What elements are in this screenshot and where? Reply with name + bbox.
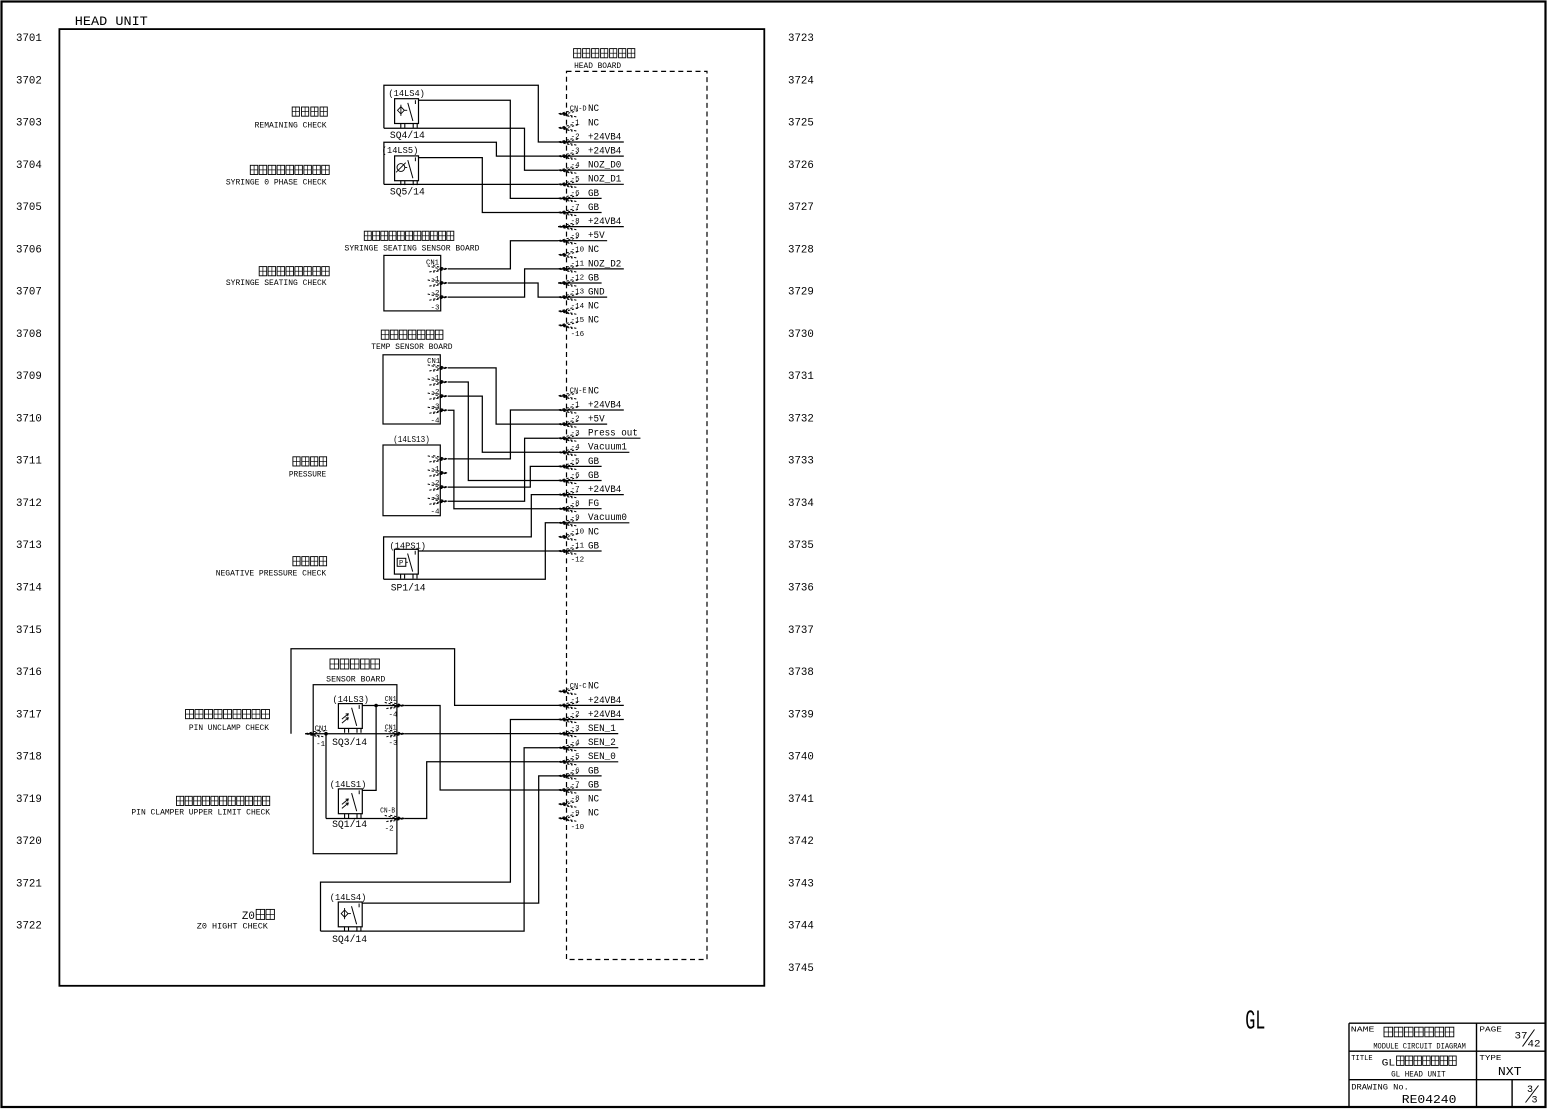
- svg-text:SQ1/14: SQ1/14: [332, 819, 367, 831]
- caption remaining check: [292, 107, 299, 116]
- svg-text:3713: 3713: [16, 540, 42, 552]
- svg-text:-6: -6: [571, 472, 581, 480]
- wire SP1 supply loop to CN-E-7 +24VB4: [384, 495, 558, 580]
- svg-text:-1: -1: [571, 120, 581, 128]
- svg-text:3723: 3723: [788, 33, 814, 45]
- svg-text:SP1/14: SP1/14: [391, 582, 426, 594]
- svg-text:-3: -3: [571, 725, 581, 733]
- wire Z0 supply loop to CN-C-2 +24VB4: [321, 720, 559, 932]
- svg-text:REMAINING CHECK: REMAINING CHECK: [255, 121, 327, 130]
- svg-text:MODULE CIRCUIT DIAGRAM: MODULE CIRCUIT DIAGRAM: [1373, 1042, 1466, 1051]
- svg-text:3728: 3728: [788, 244, 814, 256]
- svg-text:CN-E: CN-E: [570, 388, 587, 396]
- svg-text:SQ4/14: SQ4/14: [332, 934, 367, 946]
- wire SQ3 output rail to CN1-4: [362, 705, 404, 707]
- svg-text:-16: -16: [571, 331, 585, 339]
- svg-text:-11: -11: [571, 261, 585, 269]
- svg-text:NC: NC: [588, 682, 599, 693]
- svg-text:GL: GL: [1245, 1008, 1265, 1038]
- svg-text:PIN UNCLAMP CHECK: PIN UNCLAMP CHECK: [189, 724, 269, 733]
- svg-text:3743: 3743: [788, 878, 814, 890]
- switch SQ5/14 box: [395, 156, 419, 185]
- photo switch SQ1/14 box: [338, 789, 362, 818]
- svg-text:CN-C: CN-C: [570, 683, 587, 691]
- svg-text:-9: -9: [571, 810, 580, 818]
- wire Z0 bottom to CN-C-4 SEN_2: [321, 748, 559, 931]
- svg-text:-14: -14: [571, 303, 585, 311]
- wire drop to SQ1 output: [362, 706, 376, 791]
- svg-text:37: 37: [1515, 1031, 1528, 1042]
- svg-text:-10: -10: [571, 824, 585, 832]
- svg-text:3729: 3729: [788, 287, 814, 299]
- svg-text:3715: 3715: [16, 625, 42, 637]
- svg-text:3722: 3722: [16, 921, 42, 933]
- wire SP1 output to CN-E-11 GB: [418, 550, 558, 552]
- board pins CN1 1-4: [428, 365, 448, 372]
- switch SQ4/14 (Z0) box: [338, 902, 362, 931]
- svg-text:3734: 3734: [788, 498, 814, 510]
- svg-text:(14PS1): (14PS1): [390, 541, 427, 551]
- wire SP1 bottom to CN-E-9 Vacuum0: [384, 523, 558, 580]
- svg-text:3744: 3744: [788, 921, 814, 933]
- wire seating CN1-3 to CN-D-11 NOZ_D2: [448, 269, 558, 297]
- svg-text:3706: 3706: [16, 244, 42, 256]
- temp sensor board box: [383, 355, 440, 424]
- board connector CN1 pin -1 (left): [305, 730, 325, 737]
- svg-text:42: 42: [1528, 1040, 1541, 1051]
- connector CN-E: [558, 393, 578, 400]
- svg-text:-8: -8: [571, 796, 580, 804]
- title block table: [1349, 1022, 1546, 1024]
- HEAD BOARD dashed outline: [567, 71, 708, 959]
- svg-text:3717: 3717: [16, 709, 42, 721]
- wire SQ4 output to CN-D-6: [419, 100, 559, 198]
- connector CN-D: [558, 111, 578, 118]
- svg-text:-3: -3: [430, 304, 440, 312]
- wire SQ5 supply loop to CN-D-3: [384, 142, 558, 184]
- svg-text:3712: 3712: [16, 498, 42, 510]
- svg-text:3742: 3742: [788, 836, 814, 848]
- connector CN-C: [558, 688, 578, 695]
- svg-text:-5: -5: [571, 753, 581, 761]
- svg-text:SYRINGE SEATING SENSOR BOARD: SYRINGE SEATING SENSOR BOARD: [345, 245, 480, 254]
- svg-text:CN1: CN1: [385, 696, 397, 704]
- svg-text:3710: 3710: [16, 413, 42, 425]
- svg-text:-10: -10: [571, 246, 585, 254]
- wire seating CN1-1 to CN-E? no: to CN-D-9 +5V: [448, 241, 558, 269]
- caption pressure: [293, 457, 300, 466]
- svg-text:NEGATIVE PRESSURE CHECK: NEGATIVE PRESSURE CHECK: [216, 569, 327, 578]
- svg-text:3703: 3703: [16, 118, 42, 130]
- svg-text:GL: GL: [1382, 1058, 1396, 1069]
- wire internal rail under SQ3: [305, 733, 405, 735]
- svg-text:3701: 3701: [16, 33, 42, 45]
- svg-text:RE04240: RE04240: [1402, 1093, 1457, 1107]
- svg-text:NAME: NAME: [1351, 1026, 1375, 1034]
- board pins right: CN1 -4: [385, 702, 405, 709]
- svg-text:-12: -12: [571, 557, 585, 565]
- pressure switch SP1/14 box: [394, 549, 418, 578]
- svg-text:(14LS13): (14LS13): [393, 435, 430, 445]
- svg-text:SYRINGE 0 PHASE CHECK: SYRINGE 0 PHASE CHECK: [226, 178, 327, 187]
- head unit enclosure box: [59, 29, 764, 986]
- svg-text:3726: 3726: [788, 160, 814, 172]
- svg-text:NC: NC: [588, 795, 599, 806]
- wire pressure pin4 to CN-E-3 Press out: [448, 438, 558, 501]
- svg-text:3725: 3725: [788, 118, 814, 130]
- svg-text:-4: -4: [389, 712, 399, 720]
- wire temp CN1-2 to CN-E-6 GB: [448, 382, 558, 481]
- wire temp CN1-4 to CN-E-8 FG: [448, 410, 558, 509]
- svg-text:(14LS1): (14LS1): [330, 780, 367, 790]
- svg-text:3720: 3720: [16, 836, 42, 848]
- svg-text:-13: -13: [571, 289, 585, 297]
- svg-text:DRAWING No.: DRAWING No.: [1351, 1083, 1409, 1092]
- wire rail under SQ1 to CN-B-2: [326, 818, 405, 820]
- svg-text:3740: 3740: [788, 752, 814, 764]
- svg-text:3733: 3733: [788, 456, 814, 468]
- svg-text:3719: 3719: [16, 794, 42, 806]
- wire SQ5 bottom to CN-D-5: [384, 183, 558, 185]
- svg-text:3711: 3711: [16, 456, 42, 468]
- svg-text:3731: 3731: [788, 371, 814, 383]
- svg-text:-1: -1: [571, 402, 581, 410]
- svg-text:SQ3/14: SQ3/14: [332, 737, 367, 749]
- svg-text:-6: -6: [571, 768, 581, 776]
- wire CN1-4 to CN-C-7 GB: [405, 706, 558, 791]
- wire temp CN1-3 to CN-E-4 Vacuum1: [448, 396, 558, 452]
- svg-text:-15: -15: [571, 317, 585, 325]
- caption negative pressure check: [293, 557, 300, 566]
- pressure board 14LS13 box: [383, 445, 440, 516]
- wire seating CN1-2 to CN-D-13 GND: [448, 283, 558, 297]
- svg-text:3730: 3730: [788, 329, 814, 341]
- caption temp sensor board: [381, 330, 389, 339]
- svg-text:-2: -2: [571, 416, 580, 424]
- svg-text:SQ4/14: SQ4/14: [390, 130, 425, 142]
- svg-text:3745: 3745: [788, 963, 814, 975]
- supply loop wire to CN-C-1 +24VB4: [291, 649, 558, 734]
- svg-text:(14LS5): (14LS5): [382, 146, 419, 156]
- svg-text:PRESSURE: PRESSURE: [289, 470, 326, 479]
- svg-text:HEAD BOARD: HEAD BOARD: [574, 62, 621, 71]
- svg-text:NC: NC: [588, 809, 599, 820]
- svg-text:-4: -4: [571, 444, 581, 452]
- svg-text:NC: NC: [588, 302, 599, 313]
- svg-text:-1: -1: [571, 697, 581, 705]
- svg-text:3702: 3702: [16, 75, 42, 87]
- wire SQ4 bottom to CN-D-4: [384, 128, 558, 170]
- svg-text:-8: -8: [571, 500, 580, 508]
- wire SQ5 output to CN-D-7: [419, 158, 559, 213]
- svg-text:3705: 3705: [16, 202, 42, 214]
- svg-text:-2: -2: [571, 134, 580, 142]
- svg-text:(14LS4): (14LS4): [388, 89, 425, 99]
- svg-text:-11: -11: [571, 543, 585, 551]
- svg-text:3735: 3735: [788, 540, 814, 552]
- board pins right: CN-B -2: [385, 815, 405, 822]
- svg-text:3708: 3708: [16, 329, 42, 341]
- svg-text:3739: 3739: [788, 709, 814, 721]
- wire rail drop to SQ1 rail: [325, 734, 327, 819]
- wire Z0 output to CN-C-6 GB: [362, 776, 558, 903]
- board pins 1-4: [428, 456, 448, 463]
- svg-text:3736: 3736: [788, 583, 814, 595]
- svg-text:Z0 HIGHT CHECK: Z0 HIGHT CHECK: [197, 923, 268, 932]
- svg-text:-5: -5: [571, 176, 581, 184]
- svg-text:-2: -2: [385, 825, 394, 833]
- svg-text:NC: NC: [588, 245, 599, 256]
- svg-text:-4: -4: [571, 739, 581, 747]
- svg-text:-4: -4: [571, 162, 581, 170]
- svg-text:-3: -3: [571, 430, 581, 438]
- svg-text:-3: -3: [571, 148, 581, 156]
- junction dot SQ3 out: [374, 704, 378, 708]
- board pins right: CN1 -3: [385, 730, 405, 737]
- svg-text:-4: -4: [430, 417, 440, 425]
- wire SQ4 supply loop to CN-D-2: [384, 85, 558, 142]
- svg-text:3718: 3718: [16, 752, 42, 764]
- svg-text:TYPE: TYPE: [1479, 1055, 1502, 1063]
- svg-text:HEAD UNIT: HEAD UNIT: [75, 14, 148, 29]
- svg-text:-7: -7: [571, 204, 580, 212]
- svg-text:-5: -5: [571, 458, 581, 466]
- svg-text:3732: 3732: [788, 413, 814, 425]
- switch SQ4/14 box: [395, 99, 419, 128]
- syringe seating sensor board box: [384, 255, 441, 311]
- svg-text:3737: 3737: [788, 625, 814, 637]
- svg-text:GL HEAD UNIT: GL HEAD UNIT: [1391, 1070, 1446, 1079]
- svg-text:SQ5/14: SQ5/14: [390, 187, 425, 199]
- svg-text:-7: -7: [571, 486, 580, 494]
- svg-text:TEMP SENSOR BOARD: TEMP SENSOR BOARD: [371, 343, 452, 352]
- svg-text:3738: 3738: [788, 667, 814, 679]
- svg-text:NC: NC: [588, 104, 599, 115]
- svg-text:CN-D: CN-D: [570, 105, 587, 113]
- caption pin clamper upper limit check: [177, 796, 184, 805]
- svg-text:NC: NC: [588, 386, 599, 397]
- caption syringe seating check: [259, 267, 267, 276]
- svg-text:3704: 3704: [16, 160, 42, 172]
- svg-text:SYRINGE SEATING CHECK: SYRINGE SEATING CHECK: [226, 279, 327, 288]
- wire temp CN1-1 to CN-E-2 +5V: [448, 368, 558, 424]
- svg-text:-1: -1: [316, 741, 326, 749]
- svg-text:-8: -8: [571, 218, 580, 226]
- svg-text:PAGE: PAGE: [1479, 1026, 1502, 1034]
- svg-text:-4: -4: [430, 508, 440, 516]
- wire CN1-3 to CN-C-3 SEN_1: [405, 733, 558, 735]
- svg-text:-3: -3: [389, 740, 399, 748]
- svg-text:-12: -12: [571, 275, 585, 283]
- junction dot: [324, 732, 328, 736]
- svg-text:3727: 3727: [788, 202, 814, 214]
- caption syringe seating sensor board: [364, 231, 371, 240]
- wire pressure pin3 to CN-E-5 GB: [448, 466, 558, 487]
- svg-text:CN1: CN1: [385, 725, 397, 733]
- svg-text:3741: 3741: [788, 794, 814, 806]
- svg-text:CN-B: CN-B: [380, 807, 395, 815]
- svg-text:-6: -6: [571, 190, 581, 198]
- board pins CN1 1-3: [428, 266, 448, 273]
- svg-text:-9: -9: [571, 232, 580, 240]
- svg-text:Z0: Z0: [242, 911, 255, 923]
- svg-text:NXT: NXT: [1498, 1065, 1522, 1079]
- svg-text:(14LS4): (14LS4): [330, 893, 367, 903]
- svg-text:3721: 3721: [16, 878, 42, 890]
- svg-text:-2: -2: [571, 711, 580, 719]
- svg-text:3707: 3707: [16, 287, 42, 299]
- caption sensor board: [330, 659, 339, 669]
- svg-text:-9: -9: [571, 514, 580, 522]
- caption pin unclamp check: [186, 710, 194, 719]
- svg-text:-10: -10: [571, 529, 585, 537]
- photo switch SQ3/14 box: [338, 704, 362, 733]
- svg-text:NC: NC: [588, 316, 599, 327]
- svg-text:NC: NC: [588, 118, 599, 129]
- wire CN-B-2 to CN-C-5 SEN_0: [405, 762, 558, 819]
- label head board JP: [574, 49, 581, 58]
- svg-text:NC: NC: [588, 527, 599, 538]
- sensor board box: [313, 685, 397, 854]
- svg-text:-7: -7: [571, 782, 580, 790]
- svg-text:3709: 3709: [16, 371, 42, 383]
- svg-text:3716: 3716: [16, 667, 42, 679]
- svg-text:3714: 3714: [16, 583, 42, 595]
- svg-text:P: P: [399, 560, 403, 568]
- svg-text:PIN CLAMPER UPPER LIMIT CHECK: PIN CLAMPER UPPER LIMIT CHECK: [131, 808, 270, 817]
- svg-text:TITLE: TITLE: [1351, 1055, 1373, 1063]
- svg-text:3724: 3724: [788, 75, 814, 87]
- svg-text:3: 3: [1532, 1096, 1538, 1107]
- caption syringe 0 phase check: [250, 165, 257, 174]
- svg-text:SENSOR BOARD: SENSOR BOARD: [326, 675, 385, 684]
- wire pressure pin1 to CN-E-1 +24VB4: [448, 410, 558, 459]
- svg-text:(14LS3): (14LS3): [333, 695, 370, 705]
